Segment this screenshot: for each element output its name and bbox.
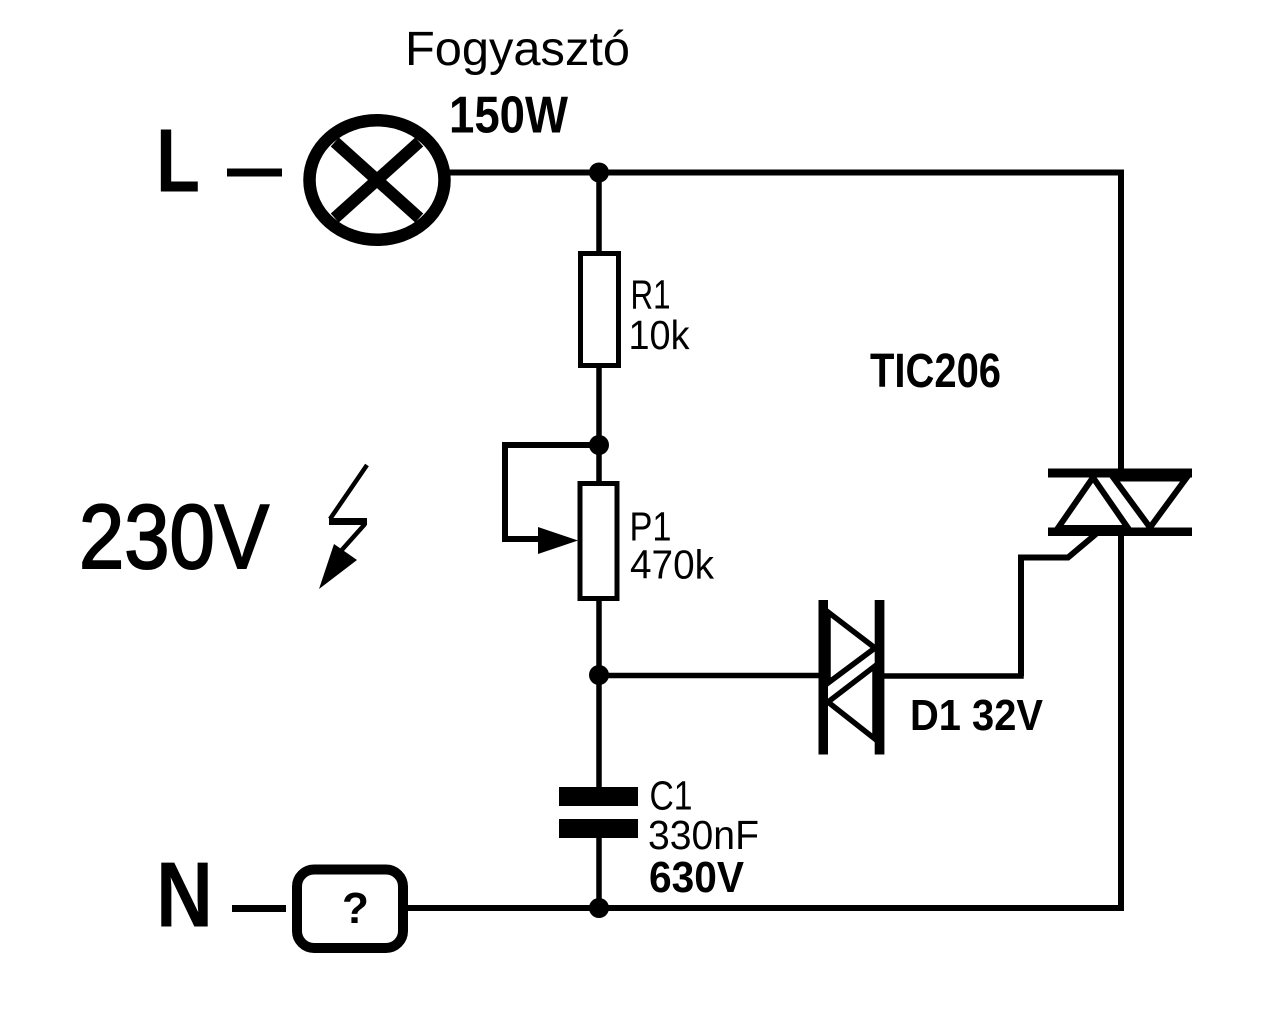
lamp E1 cross xyxy=(335,142,419,218)
wire diac to gate corner xyxy=(884,673,1024,679)
wire node C to diac D1 xyxy=(599,673,819,679)
svg-text:R1: R1 xyxy=(631,272,671,318)
capacitor C1 bottom plate xyxy=(559,819,638,838)
node B junction xyxy=(589,435,609,455)
triac U1 right triangle xyxy=(1114,479,1186,528)
potentiometer P1 xyxy=(580,484,617,599)
fuse box ? xyxy=(297,870,403,949)
wire bottom run xyxy=(408,905,1124,911)
wire node C to C1 xyxy=(596,675,602,787)
diac D1 left bar xyxy=(819,600,829,755)
diac D1 right bar xyxy=(875,600,885,755)
svg-text:N: N xyxy=(156,843,213,947)
node C junction xyxy=(589,665,609,685)
svg-text:230V: 230V xyxy=(79,487,269,588)
node bottom junction xyxy=(589,898,609,918)
node top junction xyxy=(589,163,609,183)
P1 wiper arrowhead xyxy=(538,527,578,554)
mains lightning bolt xyxy=(319,465,367,589)
wire R1 to node B xyxy=(596,368,602,445)
triac U1 left triangle xyxy=(1058,478,1128,529)
lamp E1 circle xyxy=(310,120,445,240)
wire lamp to top-right corner xyxy=(447,170,1124,176)
svg-text:10k: 10k xyxy=(629,312,690,358)
diac D1 lower triangle xyxy=(828,666,875,739)
svg-text:L: L xyxy=(156,112,200,212)
svg-text:D1 32V: D1 32V xyxy=(910,691,1044,740)
triac U1 bottom bar xyxy=(1048,528,1192,537)
capacitor C1 top plate xyxy=(559,787,638,806)
wire N lead xyxy=(232,905,286,912)
svg-text:Fogyasztó: Fogyasztó xyxy=(405,23,630,76)
wire L lead xyxy=(227,169,282,177)
wire top node down to R1 xyxy=(596,173,602,254)
svg-text:TIC206: TIC206 xyxy=(870,345,1001,398)
svg-text:150W: 150W xyxy=(449,87,569,145)
svg-text:330nF: 330nF xyxy=(648,812,759,858)
resistor R1 xyxy=(581,254,619,366)
svg-text:?: ? xyxy=(342,884,369,933)
diac D1 upper triangle xyxy=(828,612,875,683)
wire gate riser xyxy=(1021,534,1096,676)
wire C1 to bottom node xyxy=(596,838,602,908)
wire triac MT1 vertical xyxy=(1118,536,1124,911)
svg-text:630V: 630V xyxy=(649,853,745,902)
wire node B to P1 xyxy=(596,445,602,484)
wire P1 to node C xyxy=(596,601,602,675)
wire P1 wiper loop xyxy=(505,445,599,539)
triac U1 top bar xyxy=(1048,469,1192,478)
svg-text:470k: 470k xyxy=(630,542,714,588)
wire triac MT2 vertical xyxy=(1118,170,1124,469)
